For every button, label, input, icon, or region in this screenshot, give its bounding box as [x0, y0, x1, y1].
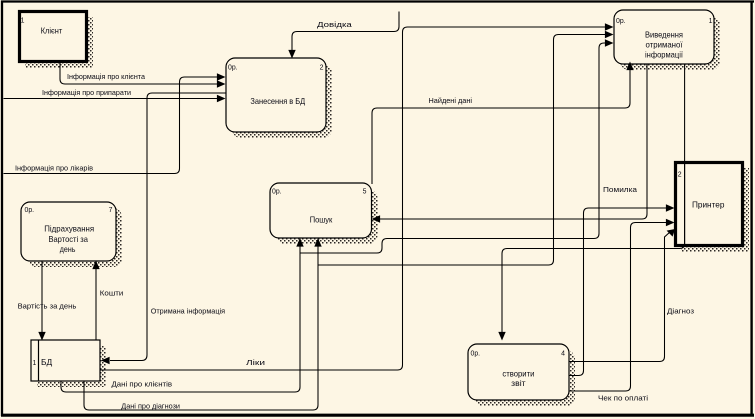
wire Найдені дані (Пошук to Виведення) [372, 69, 630, 184]
svg-text:4: 4 [561, 351, 565, 358]
wire Дані про клієнтів (БД to Пошук) [61, 246, 300, 392]
svg-text:звіт: звіт [511, 378, 526, 388]
external entity Клієнт shadow [25, 17, 93, 68]
arrowhead Ліки into Виведення left [605, 23, 614, 30]
wire branch Дані про клієнтів to Виведення [300, 43, 605, 253]
arrowhead Вартість into БД top [38, 332, 45, 341]
external entity Принтер [676, 163, 743, 246]
wire Інформація про лікарів (left border to Занесення в БД) [4, 77, 218, 174]
wire Довідка (top border to Занесення в БД) [292, 12, 399, 53]
svg-text:Вартості за: Вартості за [48, 234, 88, 244]
arrowhead Діагноз into Принтер left [667, 229, 675, 237]
arrowhead діагнози into Пошук bottom [314, 238, 321, 247]
wire Дані про діагнози (БД to Пошук) [84, 246, 318, 410]
svg-text:день: день [60, 244, 76, 254]
external entity Принтер shadow [681, 168, 749, 252]
svg-text:Ліки: Ліки [246, 358, 265, 367]
wire Кошти (БД to Підрахування) [95, 268, 97, 340]
arrowhead клієнтів into Пошук bottom [296, 238, 303, 247]
process створити звіт [468, 344, 569, 400]
page border frame [1, 0, 754, 2]
svg-text:Кошти: Кошти [100, 289, 124, 298]
process Пошук shadow [276, 189, 378, 244]
svg-text:Отримана інформація: Отримана інформація [151, 307, 225, 316]
wire Виведення-створити passing through Принтер [684, 164, 686, 245]
svg-text:Інформація про клієнта: Інформація про клієнта [67, 72, 146, 81]
wire Чек по оплаті (створити звіт to Принтер) [569, 223, 668, 392]
arrowhead Найдені дані into Виведення bottom [626, 62, 633, 71]
wire Виведення to Пошук [380, 64, 647, 219]
process Виведення отриманої інформації [614, 10, 714, 64]
svg-text:Помилка: Помилка [603, 185, 638, 194]
svg-text:0р.: 0р. [272, 189, 282, 196]
wire Інформація про припарати (left border to Занесення в БД) [4, 98, 218, 100]
process Занесення в БД [226, 58, 326, 132]
arrowhead Довідка into Занесення top [288, 50, 295, 59]
arrowhead Чек into Принтер left [666, 219, 675, 226]
arrowhead Отримана into БД right [101, 357, 110, 364]
svg-text:Занесення в БД: Занесення в БД [250, 96, 305, 106]
svg-text:5: 5 [363, 189, 367, 196]
arrowhead branch діагнози into Виведення left [605, 31, 614, 38]
wire Вартість за день (Підрахування to БД) [41, 261, 43, 333]
arrowhead into створити звіт top [498, 332, 505, 341]
process Виведення отриманої інформації shadow [620, 16, 720, 70]
svg-text:Інформація про лікарів: Інформація про лікарів [15, 164, 93, 173]
wire Ліки (БД to Виведення) [100, 27, 605, 370]
svg-text:1: 1 [33, 360, 37, 367]
svg-text:отриманої: отриманої [646, 40, 684, 50]
svg-text:Інформація про припарати: Інформація про припарати [42, 88, 131, 97]
svg-text:інформації: інформації [645, 50, 684, 60]
svg-text:0р.: 0р. [616, 18, 626, 25]
svg-text:2: 2 [678, 172, 682, 179]
svg-text:створити: створити [502, 369, 534, 379]
wire Інформація про клієнта (Клієнт to Занесення в БД) [60, 62, 217, 84]
process Підрахування Вартості за день shadow [27, 208, 122, 267]
process створити звіт shadow [474, 350, 575, 406]
svg-text:7: 7 [109, 207, 113, 214]
svg-text:Підрахування: Підрахування [44, 224, 94, 234]
arrowhead Помилка into Принтер left [666, 204, 675, 211]
external entity Клієнт [20, 12, 87, 62]
svg-text:0р.: 0р. [25, 207, 35, 214]
svg-text:0р.: 0р. [471, 351, 481, 358]
wire Помилка (створити звіт to Принтер) [569, 208, 668, 376]
svg-text:Дані про клієнтів: Дані про клієнтів [112, 380, 173, 389]
svg-text:Вартість за день: Вартість за день [18, 302, 77, 311]
data store БД [31, 340, 100, 381]
svg-text:2: 2 [320, 65, 324, 72]
wire Отримана інформація (Занесення в БД to БД) [110, 93, 226, 361]
arrowhead branch клієнтів into Виведення left [605, 39, 614, 46]
arrowhead Кошти into Підрахування bottom [92, 261, 99, 270]
svg-text:Принтер: Принтер [692, 200, 725, 210]
svg-text:Довідка: Довідка [317, 20, 353, 29]
arrowhead припарати into Занесення left [217, 95, 226, 102]
data store БД shadow [37, 346, 106, 387]
arrowhead клієнта into Занесення left [217, 80, 226, 87]
svg-text:Чек по оплаті: Чек по оплаті [598, 394, 648, 403]
process Підрахування Вартості за день [21, 202, 116, 261]
svg-text:Найдені дані: Найдені дані [429, 96, 473, 105]
svg-text:1: 1 [709, 18, 713, 25]
process Пошук [270, 183, 372, 238]
svg-text:0р.: 0р. [228, 65, 238, 72]
arrowhead into Пошук right [372, 215, 381, 222]
svg-text:Дані про діагнози: Дані про діагнози [121, 402, 180, 411]
svg-text:Клієнт: Клієнт [41, 25, 63, 35]
svg-text:Діагноз: Діагноз [667, 307, 695, 316]
arrowhead лікарів into Занесення left [217, 73, 226, 80]
process Занесення в БД shadow [232, 64, 332, 138]
svg-text:Виведення: Виведення [645, 30, 683, 40]
svg-text:Пошук: Пошук [310, 214, 333, 224]
data store БД number divider [38, 340, 40, 381]
wire Діагноз (створити звіт to Принтер) [569, 232, 671, 362]
wire Виведення to створити звіт (through Принтер) [502, 64, 685, 334]
svg-text:БД: БД [41, 357, 52, 367]
wire branch Дані про діагнози to Виведення [318, 35, 605, 266]
svg-text:1: 1 [21, 17, 25, 24]
